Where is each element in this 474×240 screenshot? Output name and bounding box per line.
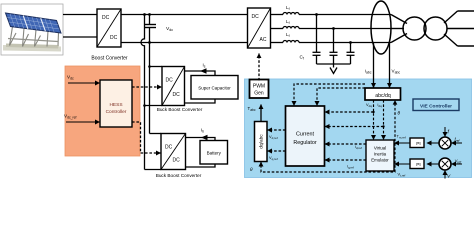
svg-text:abc/dq: abc/dq bbox=[375, 93, 391, 99]
svg-text:DC: DC bbox=[110, 35, 118, 41]
svg-text:Super Capacitor: Super Capacitor bbox=[198, 86, 231, 91]
svg-text:Controller: Controller bbox=[106, 109, 127, 115]
svg-text:Inertia: Inertia bbox=[374, 152, 387, 157]
svg-text:Buck Boost Converter: Buck Boost Converter bbox=[156, 173, 202, 178]
svg-text:Current: Current bbox=[296, 132, 314, 138]
svg-text:Gen: Gen bbox=[254, 91, 264, 97]
svg-text:DC: DC bbox=[252, 14, 260, 20]
svg-text:PI: PI bbox=[416, 162, 421, 168]
svg-text:AC: AC bbox=[260, 37, 267, 43]
svg-text:Regulator: Regulator bbox=[293, 140, 317, 146]
svg-text:HESS: HESS bbox=[109, 102, 122, 108]
svg-text:VIE Controller: VIE Controller bbox=[420, 104, 452, 110]
svg-text:Virtual: Virtual bbox=[374, 146, 386, 151]
svg-text:PI: PI bbox=[416, 141, 421, 147]
svg-text:DC: DC bbox=[166, 78, 174, 84]
svg-text:Buck Boost Converter: Buck Boost Converter bbox=[157, 107, 203, 112]
svg-text:Battery: Battery bbox=[207, 151, 222, 156]
svg-text:PWM: PWM bbox=[253, 83, 265, 89]
svg-text:dq/abc: dq/abc bbox=[258, 134, 264, 149]
svg-text:Boost Converter: Boost Converter bbox=[91, 56, 127, 62]
svg-text:DC: DC bbox=[165, 145, 173, 151]
svg-text:Emulator: Emulator bbox=[371, 158, 389, 163]
svg-text:DC: DC bbox=[173, 158, 181, 164]
svg-text:DC: DC bbox=[173, 92, 181, 98]
svg-text:DC: DC bbox=[102, 15, 110, 21]
